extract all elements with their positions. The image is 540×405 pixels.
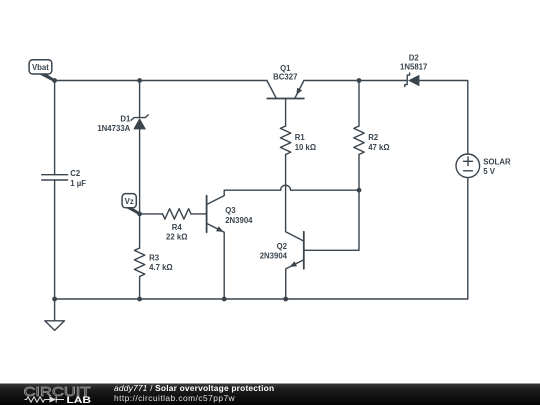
svg-text:addy771 / Solar overvoltage pr: addy771 / Solar overvoltage protection: [114, 383, 274, 393]
svg-text:5 V: 5 V: [483, 167, 496, 176]
solar source circle: [456, 154, 480, 178]
svg-text:C2: C2: [70, 169, 81, 178]
solar minus sign: [464, 170, 473, 172]
junction node Vbat rail: [52, 78, 57, 83]
junction node Vz: [137, 212, 142, 217]
solar plus sign: [464, 157, 473, 166]
transistor Q2 emitter arrow: [290, 261, 298, 267]
transistor Q3 emitter arrow: [216, 226, 224, 232]
junction node R3 bottom: [137, 297, 142, 302]
svg-text:22 kΩ: 22 kΩ: [166, 233, 187, 242]
node Vz tail: [125, 207, 141, 215]
wire Vbat branch upper (to C2): [54, 81, 56, 175]
ground symbol triangle: [45, 321, 65, 331]
wire D1 branch upper: [139, 81, 141, 118]
junction node Q2 emitter: [283, 297, 288, 302]
junction node R2 top: [357, 78, 362, 83]
svg-text:Q2: Q2: [277, 242, 288, 251]
svg-text:SOLAR: SOLAR: [483, 157, 511, 166]
junction node D1 top: [137, 78, 142, 83]
wire Q1 right lead: [295, 81, 304, 99]
wire Q1 left lead: [267, 81, 277, 99]
wire R2 top to rail: [358, 81, 360, 127]
resistor R4: [163, 209, 192, 219]
diode D1 zener cathode bar: [131, 115, 148, 120]
wire Q3 collector lead: [207, 190, 281, 204]
wire R1 bottom to Q2 collector: [286, 155, 304, 242]
svg-text:LAB: LAB: [67, 395, 92, 405]
svg-text:1 µF: 1 µF: [70, 179, 86, 188]
node label Vz: [122, 194, 136, 208]
transistor Q2 base bar: [303, 232, 305, 269]
svg-text:Q3: Q3: [225, 206, 236, 215]
junction node Q3 collector / R2: [357, 188, 362, 193]
svg-text:R2: R2: [368, 133, 379, 142]
wire Q2 base to R2 bottom: [304, 155, 359, 251]
svg-text:Vz: Vz: [125, 197, 134, 206]
node Vbat tail: [37, 73, 56, 82]
resistor R3: [134, 248, 144, 277]
wire top rail Q1 to D2: [304, 80, 407, 82]
svg-text:R1: R1: [295, 133, 306, 142]
svg-text:1N5817: 1N5817: [400, 63, 427, 72]
diode D2 triangle: [408, 75, 419, 87]
wire Q1 base lead to R1: [285, 99, 287, 127]
svg-text:BC327: BC327: [273, 72, 297, 81]
transistor Q3 base bar: [206, 196, 208, 233]
wire R3 bottom to rail: [139, 277, 141, 300]
logo diode triangle: [50, 396, 57, 402]
resistor R2: [354, 126, 364, 155]
svg-text:1N4733A: 1N4733A: [97, 124, 130, 133]
svg-text:http://circuitlab.com/c57pp7w: http://circuitlab.com/c57pp7w: [114, 393, 236, 403]
svg-text:R3: R3: [149, 254, 160, 263]
capacitor C2 plates: [42, 175, 68, 180]
logo resistor-diode glyph: [25, 397, 65, 403]
transistor Q1 base bar: [267, 98, 304, 100]
wire D2 to solar top corner: [419, 81, 467, 155]
svg-text:R4: R4: [172, 223, 183, 232]
transistor Q1 emitter arrow: [296, 88, 302, 96]
wire Q3 emitter lead to rail: [207, 223, 225, 299]
svg-text:Vbat: Vbat: [32, 63, 49, 72]
wire ground stem: [54, 299, 56, 321]
svg-text:2N3904: 2N3904: [260, 252, 288, 261]
junction node Q3 emitter: [222, 297, 227, 302]
wire top rail left of Q1: [55, 80, 267, 82]
svg-text:4.7 kΩ: 4.7 kΩ: [149, 263, 173, 272]
wire hop to R2 branch node: [291, 189, 359, 191]
svg-text:2N3904: 2N3904: [225, 216, 253, 225]
wire D1 to Vz node to R3 top: [139, 130, 141, 249]
node label Vbat: [29, 60, 52, 74]
diode D1 triangle: [133, 118, 146, 129]
wire C2 lower to rail: [54, 180, 56, 299]
svg-text:D2: D2: [409, 54, 420, 63]
wire hop over R1 branch: [281, 185, 291, 190]
wire R4 to Q3 base: [191, 213, 206, 215]
wire Vz node to R4: [140, 213, 163, 215]
footer bar: [0, 384, 540, 405]
wire solar bottom + bottom rail: [55, 178, 468, 299]
diode D2 schottky cathode bar: [405, 73, 410, 87]
junction node ground rail C2: [52, 297, 57, 302]
svg-text:D1: D1: [120, 115, 131, 124]
resistor R1: [280, 126, 290, 155]
svg-text:47 kΩ: 47 kΩ: [368, 143, 389, 152]
wire Q2 emitter lead to rail: [286, 260, 304, 299]
svg-text:10 kΩ: 10 kΩ: [295, 143, 316, 152]
